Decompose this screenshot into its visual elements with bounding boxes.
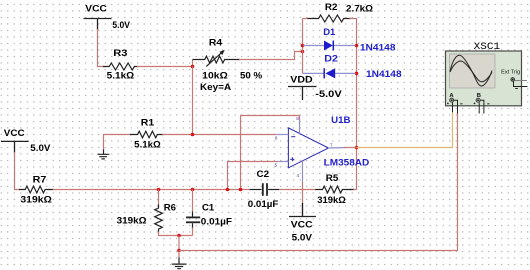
svg-text:5: 5: [275, 162, 278, 168]
resistor R2: [308, 15, 351, 22]
node R1 junction: [191, 133, 195, 137]
diode D2: [303, 68, 356, 78]
pin 4 lead: [302, 161, 304, 183]
diode D1: [303, 41, 356, 51]
svg-text:R1: R1: [141, 118, 155, 129]
wire pin4 to VCC: [302, 182, 304, 217]
svg-text:R7: R7: [33, 174, 47, 185]
svg-text:10kΩ: 10kΩ: [202, 71, 228, 82]
terminal A: [450, 98, 454, 102]
pin 6 lead: [276, 134, 288, 136]
svg-text:XSC1: XSC1: [474, 41, 501, 52]
svg-text:319kΩ: 319kΩ: [20, 194, 52, 205]
wire main horizontal net: [53, 189, 250, 191]
svg-text:5.0V: 5.0V: [292, 233, 313, 244]
svg-text:8: 8: [296, 116, 299, 122]
wire VCC to R3: [98, 29, 106, 67]
wire ground up to R1: [104, 135, 132, 150]
potentiometer R4: [193, 53, 240, 66]
resistor R7: [19, 186, 54, 193]
wire R2 left corner: [303, 18, 309, 20]
op-amp U1B: [288, 128, 328, 168]
wire R1 to opamp pin6: [162, 134, 276, 136]
wire junction riser to R4: [192, 60, 194, 67]
svg-text:5.1kΩ: 5.1kΩ: [107, 71, 135, 82]
output lead pin 7: [328, 147, 345, 149]
wire scope A (orange): [357, 112, 453, 148]
svg-text:VCC: VCC: [85, 4, 107, 15]
svg-text:R4: R4: [209, 37, 223, 48]
wire VCC left down to R7: [15, 152, 21, 190]
power symbol VCC (bottom, inverted): [289, 203, 316, 217]
node pin5 riser: [226, 188, 230, 192]
wire R6 top riser: [158, 190, 160, 206]
resistor R1: [130, 131, 163, 138]
svg-text:VCC: VCC: [4, 128, 25, 139]
svg-text:C1: C1: [202, 202, 215, 213]
wire C1 bottom: [192, 228, 194, 236]
svg-text:5.0V: 5.0V: [30, 143, 51, 154]
svg-text:50 %: 50 %: [240, 71, 263, 82]
svg-text:Key=A: Key=A: [200, 82, 231, 93]
capacitor C1 (vertical): [186, 212, 200, 229]
svg-text:1N4148: 1N4148: [360, 43, 396, 54]
svg-text:R6: R6: [164, 202, 176, 213]
svg-text:C2: C2: [257, 169, 270, 180]
wire pin5 feed: [228, 162, 279, 190]
wire R2 right corner / right rail x=355.9: [350, 19, 357, 148]
svg-text:1N4148: 1N4148: [366, 69, 402, 80]
power symbol VCC (left): [1, 141, 29, 153]
resistor R6 (vertical): [155, 205, 163, 233]
ground (bottom): [172, 257, 187, 269]
wire C1 top riser: [192, 190, 194, 213]
wire R4 to D-network: [239, 52, 303, 60]
node R6/C1 bottom: [177, 234, 181, 238]
wire down to bottom net: [178, 236, 180, 251]
node R6 top: [157, 188, 161, 192]
wire pin8 top feed: [241, 116, 300, 190]
svg-text:U1B: U1B: [331, 115, 350, 126]
svg-text:R2: R2: [325, 2, 338, 13]
wire output to node: [344, 147, 357, 149]
svg-text:5.1kΩ: 5.1kΩ: [134, 139, 161, 150]
svg-text:0.01µF: 0.01µF: [201, 217, 232, 228]
svg-text:6: 6: [275, 136, 278, 142]
node R4 feed junction: [301, 50, 305, 54]
wire R6 bottom: [159, 232, 193, 236]
node D1 anode: [301, 44, 305, 48]
svg-text:-5.0V: -5.0V: [315, 89, 342, 100]
scope waveform B: [450, 61, 492, 82]
svg-text:319kΩ: 319kΩ: [117, 215, 147, 226]
svg-text:LM358AD: LM358AD: [324, 157, 370, 168]
wire bottom net to scope: [179, 113, 458, 251]
svg-text:R5: R5: [326, 173, 339, 184]
svg-text:R3: R3: [113, 48, 127, 59]
svg-text:2.7kΩ: 2.7kΩ: [346, 4, 373, 15]
terminal B: [476, 98, 480, 102]
wire C2 to R5: [279, 189, 316, 191]
node C1 top: [191, 188, 195, 192]
resistor R5: [315, 186, 353, 193]
svg-text:D1: D1: [323, 27, 336, 38]
node output junction: [355, 146, 359, 150]
node D2 cathode: [355, 72, 359, 76]
capacitor C2: [250, 183, 280, 196]
node pin8 riser: [239, 188, 243, 192]
power symbol VDD: [288, 87, 317, 101]
svg-text:319kΩ: 319kΩ: [317, 195, 346, 206]
resistor R3: [103, 63, 138, 70]
wire left rail x=302: [302, 19, 304, 74]
svg-text:Ext Trig: Ext Trig: [501, 69, 520, 75]
pin 8 lead: [299, 120, 301, 134]
wire R3 to junction: [137, 66, 193, 68]
power symbol VCC (top-left): [84, 19, 112, 31]
svg-text:VCC: VCC: [291, 219, 313, 230]
scope waveform A: [450, 55, 492, 86]
pin 5 lead: [278, 161, 289, 163]
node D1 cathode: [355, 44, 359, 48]
terminal Ext Trig: [511, 78, 515, 82]
svg-text:D2: D2: [324, 53, 338, 64]
svg-text:VDD: VDD: [290, 75, 312, 86]
node bottom net: [177, 249, 181, 253]
ground (under R1): [97, 149, 109, 159]
svg-text:7: 7: [330, 142, 333, 148]
wire junction down to R1 node: [192, 67, 194, 135]
wire output node down to R5: [353, 148, 357, 190]
node R3/R4 junction: [191, 65, 195, 69]
svg-text:0.01µF: 0.01µF: [248, 199, 279, 210]
svg-text:5.0V: 5.0V: [112, 20, 130, 31]
svg-text:4: 4: [297, 173, 300, 179]
